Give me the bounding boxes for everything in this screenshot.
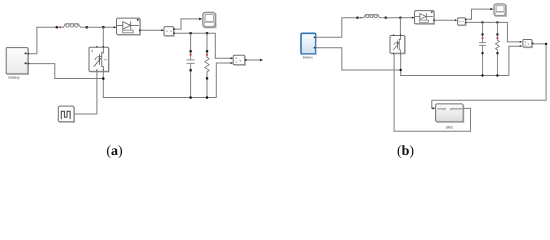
wire current measurement to scope (b) [466,9,490,19]
wire drain tap down to MOSFET (b) [399,18,401,36]
inductor L1 (b) [359,15,385,18]
diode D1 (a) [114,18,142,35]
node inductor right terminal (a) [86,26,88,28]
junction drain tap (b) [399,17,401,19]
wire inductor to diode rail (b) [387,17,413,19]
wire output rail (b) [468,22,521,42]
voltage measurement V (a) [231,55,247,65]
wire diode to current measurement (a) [141,29,163,31]
battery Battery (b) selected [301,33,316,59]
capacitor C1 branch (a) [187,33,194,97]
wire SMC gatepulse to MOSFET gate (b) [394,55,470,132]
label (a) [107,145,122,158]
junction capacitor bottom (b) [481,74,483,76]
junction source/battery- (b) [400,69,402,71]
junction capacitor tap (a) [189,32,192,35]
wire drain tap down to MOSFET (a) [102,27,104,47]
wire pulse generator to MOSFET gate (a) [74,73,97,115]
scope Scope (a) [203,12,216,28]
junction resistor bottom (b) [496,74,498,76]
resistor R1 branch (b) [496,22,500,75]
junction feedback corner (b) [545,43,547,45]
MOSFET Q1 (a) [89,45,109,72]
node inductor left terminal (a) [56,26,58,28]
junction capacitor bottom (a) [189,96,192,99]
wire battery+ to top rail (b) [316,18,357,38]
polarity mark inductor (b) [360,17,362,19]
current measurement I (a) [161,27,176,37]
wire voltage measurement output (a) [247,59,260,61]
pulse generator (a) [58,106,74,122]
polarity mark capacitor (a) [190,54,192,56]
wire battery+ to top rail (a) [30,27,57,54]
wire battery- to ground node (b) [316,48,401,70]
wire bottom rail (b) [401,46,521,75]
label (b) [398,145,414,158]
diode D1 (b) [412,11,436,25]
polarity mark resistor (a) [206,54,208,56]
capacitor C1 terminals (b) [482,33,484,35]
arrow into SMC input (b) [431,107,434,108]
current measurement I (b) [455,18,468,26]
voltage measurement V (b) [520,40,534,48]
junction resistor tap (b) [496,21,498,23]
subsystem SMC (b) [436,104,464,129]
polarity mark resistor (b) [497,37,499,39]
junction resistor tap (a) [206,32,209,35]
inductor L1 (a) [58,24,86,28]
battery Battery (a) [6,48,30,80]
junction capacitor tap (b) [481,21,483,23]
wire inductor to diode rail (a) [88,26,115,28]
wire current measurement to scope (a) [175,19,199,29]
wire MOSFET source down to bottom rail (a) [102,72,104,98]
wire battery- to ground node (a) [30,64,103,79]
wire bottom rail (a) [103,63,232,98]
resistor R1 terminals (a) [206,50,208,52]
arrow into scope (b) [491,8,494,10]
capacitor C1 terminals (a) [190,50,192,52]
node inductor right terminal (b) [385,17,387,19]
resistor R1 terminals (b) [496,33,498,35]
MOSFET Q1 (b) [390,34,405,55]
capacitor C1 branch (b) [480,22,486,75]
wire diode to current measurement (b) [435,19,456,21]
junction source/battery- (a) [102,77,105,80]
wire output rail (a) [176,33,232,58]
junction resistor bottom (a) [206,96,209,99]
junction drain tap (a) [102,26,105,29]
node inductor left terminal (b) [356,17,358,19]
wire MOSFET source down to bottom rail (b) [400,53,402,75]
resistor R1 branch (a) [205,33,209,97]
wire voltage measurement output to feedback (b) [432,44,546,107]
polarity mark inductor (a) [59,26,61,28]
arrow into scope (a) [199,18,202,21]
scope Scope (b) [494,4,506,16]
polarity mark capacitor (b) [482,37,484,39]
arrow line end (a) [260,59,263,61]
